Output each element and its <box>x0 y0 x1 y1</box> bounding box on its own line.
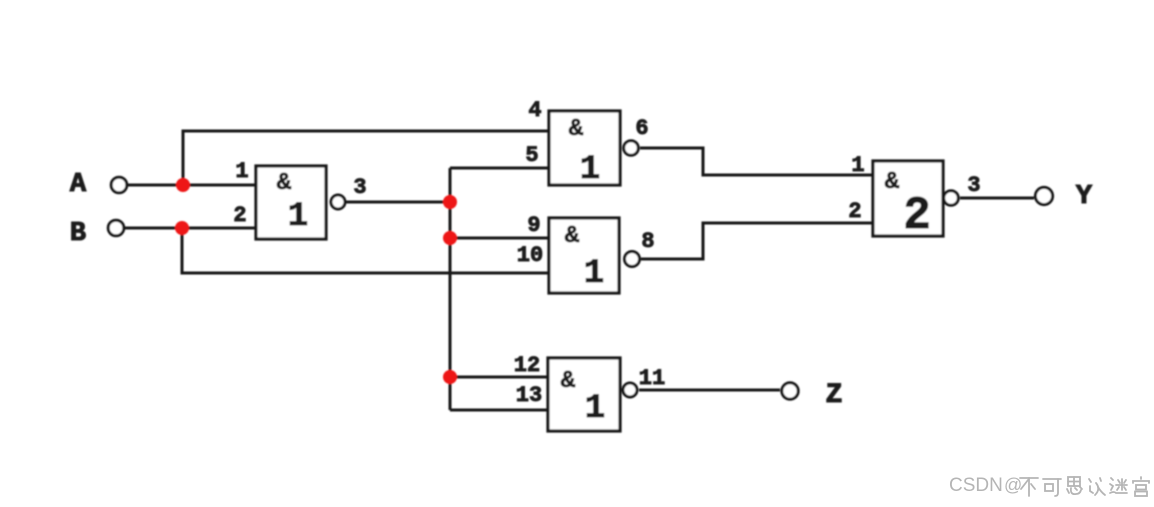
svg-text:&: & <box>885 169 900 196</box>
svg-text:2: 2 <box>903 190 931 242</box>
svg-text:&: & <box>565 223 580 250</box>
svg-text:1: 1 <box>584 255 604 293</box>
svg-text:13: 13 <box>516 383 542 408</box>
svg-text:10: 10 <box>517 243 543 268</box>
svg-text:1: 1 <box>288 198 308 236</box>
svg-text:2: 2 <box>848 199 861 224</box>
svg-text:&: & <box>569 116 584 143</box>
svg-text:8: 8 <box>641 229 654 254</box>
svg-text:12: 12 <box>514 353 540 378</box>
svg-text:3: 3 <box>353 175 366 200</box>
svg-text:6: 6 <box>635 116 648 141</box>
svg-text:11: 11 <box>639 366 665 391</box>
svg-text:5: 5 <box>525 143 538 168</box>
svg-text:9: 9 <box>527 213 540 238</box>
svg-text:1: 1 <box>851 153 864 178</box>
svg-text:4: 4 <box>528 98 541 123</box>
svg-text:&: & <box>277 170 292 197</box>
svg-text:A: A <box>70 170 87 200</box>
svg-text:CSDN: CSDN <box>949 475 1003 496</box>
svg-text:Y: Y <box>1076 182 1093 212</box>
svg-text:3: 3 <box>967 173 980 198</box>
svg-text:1: 1 <box>580 151 600 189</box>
svg-text:1: 1 <box>585 390 605 428</box>
svg-text:Z: Z <box>826 380 843 411</box>
svg-text:1: 1 <box>235 159 248 184</box>
svg-text:2: 2 <box>233 203 246 228</box>
svg-text:B: B <box>70 219 86 249</box>
svg-text:&: & <box>561 368 576 395</box>
